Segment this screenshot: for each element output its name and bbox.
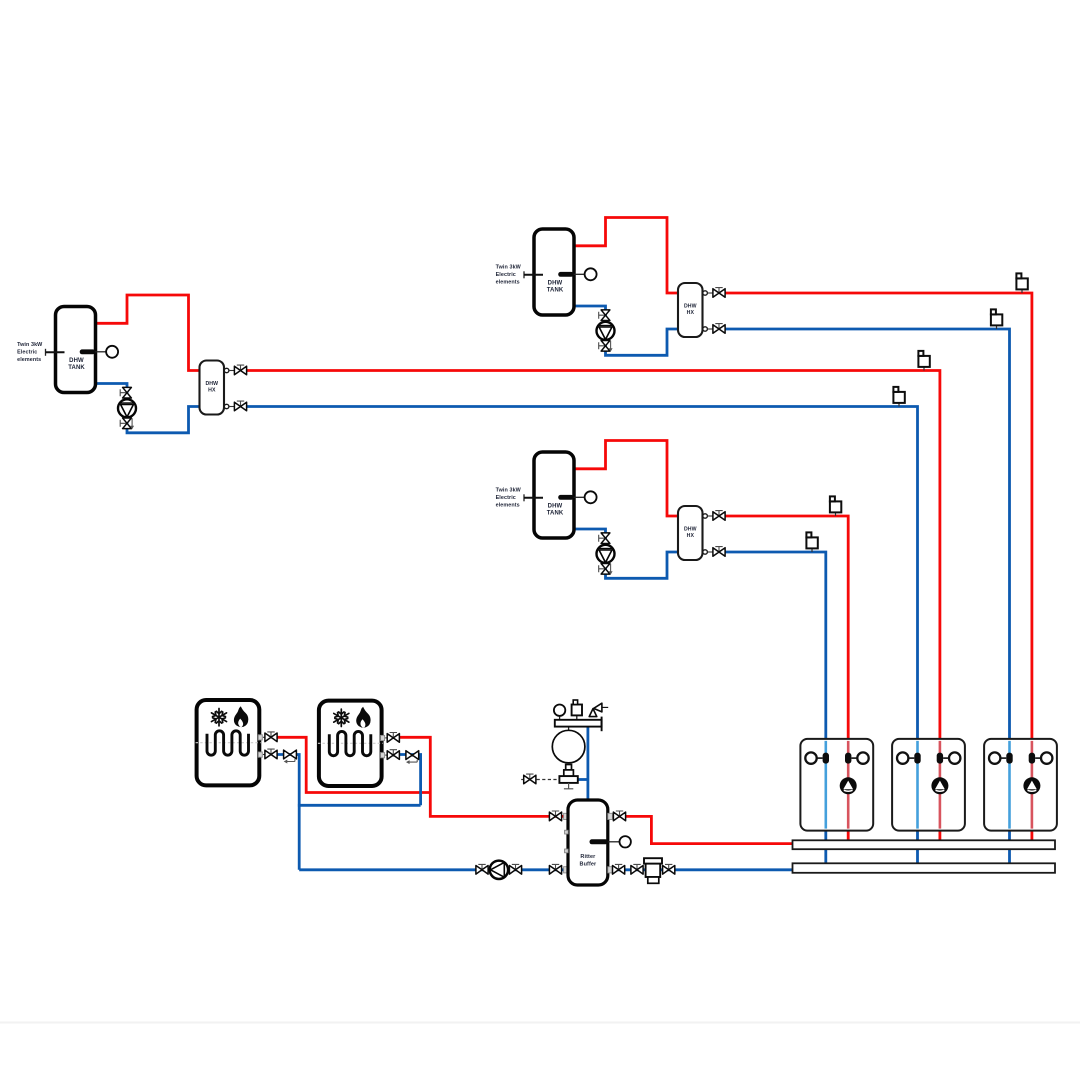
wire: expansion vessel tee: [577, 778, 588, 781]
expansion vessel: [552, 730, 585, 763]
wire: boiler 1 return drop: [277, 755, 299, 870]
wire: boiler return header: [298, 804, 421, 807]
wire: DHW loop 3 flow (middle group to HIU 1): [726, 516, 849, 842]
wire: DHW loop 2 return: [726, 329, 1010, 865]
strainer inlet valve: [631, 864, 643, 874]
boiler 2 check valve: [406, 751, 419, 764]
sensor on loop3 return: [806, 532, 817, 552]
auto air vent: [572, 700, 582, 715]
strainer outlet valve: [663, 864, 675, 874]
boiler 1 flow valve: [265, 732, 277, 742]
wire: DHW loop 1 flow (left group to HIU 2): [247, 371, 940, 842]
svg-text:Buffer: Buffer: [580, 862, 598, 868]
primary circulating pump: [490, 861, 508, 879]
wire: buffer top connection: [587, 727, 590, 801]
expansion / safety group: [555, 715, 602, 731]
DHW tank group 1 (left): [17, 295, 247, 433]
sensor on loop3 flow: [830, 496, 841, 516]
boiler 2 flow valve: [387, 733, 399, 743]
pump outlet valve: [509, 864, 521, 874]
sensor on loop1 flow: [918, 351, 929, 371]
hybrid boiler 2: [318, 701, 387, 786]
boiler 2 return valve: [387, 750, 399, 760]
buffer outlet valve (flow): [613, 811, 625, 821]
return manifold: [793, 863, 1056, 873]
return isolating valve: [476, 864, 488, 874]
sensor on loop2 return: [991, 309, 1002, 329]
boiler 1 check valve: [284, 750, 297, 763]
buffer inlet valve (return): [549, 864, 561, 874]
vessel service fitting: [559, 765, 577, 789]
wire: DHW loop 3 return: [726, 552, 826, 865]
sensor on loop2 flow: [1016, 273, 1027, 293]
DHW tank group 3 (middle): [496, 441, 725, 579]
wire: boiler 2 return drop: [400, 755, 421, 806]
buffer inlet valve (flow): [549, 811, 561, 821]
DHW tank group 2 (top): [496, 218, 725, 356]
faint page fold line: [0, 1022, 1080, 1024]
drain line (dashed): [537, 779, 560, 781]
hybrid boiler 1: [196, 700, 265, 785]
wire: buffer flow to manifold: [607, 816, 794, 843]
heat interface unit 2: [892, 739, 965, 831]
wire: DHW loop 1 return: [247, 407, 918, 865]
buffer vessel: [564, 800, 631, 885]
wire: boiler 1 flow: [277, 737, 432, 792]
sensor on loop1 return: [893, 387, 904, 407]
svg-text:Ritter: Ritter: [580, 854, 596, 860]
wire: buffer return from manifold: [607, 868, 794, 871]
wire: DHW loop 2 flow (top group to HIU 3): [726, 293, 1032, 842]
heat interface unit 3: [984, 739, 1057, 831]
safety relief valve: [589, 703, 608, 716]
flow manifold: [793, 840, 1056, 849]
wire: boiler 2 flow to buffer: [399, 737, 569, 816]
pressure gauge: [554, 705, 565, 716]
drain valve: [521, 774, 536, 784]
heat interface unit 1: [800, 739, 873, 831]
buffer outlet valve (return): [613, 864, 625, 874]
strainer: [644, 858, 662, 883]
boiler 1 return valve: [265, 749, 277, 759]
wire: common return into buffer: [299, 868, 569, 871]
